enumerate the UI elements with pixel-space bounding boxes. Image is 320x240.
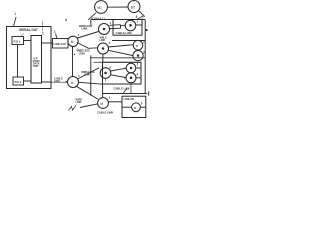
wire M7 down — [105, 78, 107, 81]
pin M8 — [136, 67, 141, 69]
svg-text:LINK: LINK — [82, 27, 88, 31]
wire N2 to M5 — [108, 45, 133, 47]
svg-text:SERIAL DAT: SERIAL DAT — [19, 28, 38, 32]
wire M7 to M9 — [111, 75, 127, 78]
leader 7 — [42, 21, 44, 32]
pin M5 — [143, 42, 145, 43]
node M6 dot — [137, 54, 140, 57]
enclosure left edge — [90, 20, 92, 26]
wire U2 to line cap — [42, 42, 53, 44]
motor M11 — [132, 103, 141, 112]
motor M6 — [133, 51, 143, 61]
pin tick M11 — [141, 103, 143, 104]
node C1 — [125, 20, 136, 31]
node N2 — [98, 43, 109, 54]
wire vertical right of M4 — [90, 55, 92, 95]
enclosure bottom edge — [103, 93, 146, 95]
arrowhead 5 — [143, 15, 145, 17]
svg-text:3: 3 — [54, 30, 56, 34]
svg-text:LINK: LINK — [54, 79, 60, 83]
leader 3 — [56, 34, 58, 39]
motor M2 — [128, 1, 140, 13]
motor M5 — [133, 40, 143, 50]
wire into M11 — [122, 106, 132, 108]
box B1 cable link — [113, 20, 142, 36]
node dot — [74, 54, 75, 55]
motor M1 — [95, 1, 108, 14]
node N1 dot — [103, 28, 106, 31]
svg-text:P.S 1: P.S 1 — [14, 40, 21, 44]
svg-text:M2: M2 — [131, 5, 136, 9]
wire PS1 to U2 — [24, 40, 32, 42]
motor M9 — [126, 73, 136, 83]
svg-text:M: M — [71, 40, 74, 44]
line cap box U3 — [53, 39, 69, 49]
svg-text:M1: M1 — [98, 6, 103, 10]
box B2 top edge — [112, 40, 145, 42]
svg-text:P.S 2: P.S 2 — [15, 80, 22, 84]
node C1 dot — [129, 24, 132, 27]
wire M1 to M2 — [107, 6, 128, 8]
svg-text:UNIT: UNIT — [33, 64, 39, 68]
leader 5 — [138, 16, 144, 19]
squiggle label 20 — [69, 106, 77, 111]
coupler M7 dot — [104, 72, 107, 75]
tick scribble — [142, 16, 146, 19]
wire vertical M3 to M4 — [72, 47, 74, 77]
svg-text:M: M — [100, 102, 103, 106]
wire M7 to M8 — [111, 68, 127, 71]
wire C1 right — [136, 24, 142, 26]
label WIRELESS LINK mid — [77, 49, 91, 56]
label WIRELESS LINK top — [79, 24, 93, 31]
arrowhead out — [146, 93, 148, 95]
svg-text:CABLE LINK: CABLE LINK — [114, 87, 130, 91]
leader 5 arrow — [139, 11, 145, 17]
svg-text:LINK: LINK — [79, 51, 85, 55]
wire to M4 — [51, 81, 68, 83]
node N2 dot — [102, 47, 105, 50]
wire into C1 — [121, 24, 126, 26]
svg-text:LINE DR: LINE DR — [124, 97, 135, 101]
wire U2 out bottom — [42, 81, 52, 83]
motor M8 — [126, 63, 136, 73]
arrow cable link to M4 — [66, 81, 68, 83]
node M8 dot — [130, 67, 133, 70]
converter block U2 — [31, 36, 42, 84]
label CABLE LINK left — [54, 77, 63, 84]
svg-text:CABLE LINK: CABLE LINK — [97, 111, 113, 115]
pin stub — [148, 91, 150, 95]
box B2 bottom edge — [91, 57, 145, 59]
box B4 line driver — [122, 96, 146, 117]
svg-text:M: M — [71, 81, 74, 85]
power supply PS2 — [13, 77, 24, 85]
wireless link line M3 to N2 — [77, 43, 98, 49]
arrowhead M7-M9 — [124, 77, 126, 79]
box B3 — [94, 61, 142, 63]
wire B3 to M10 — [102, 84, 104, 98]
coupler M7 — [100, 68, 111, 79]
wire PS2 to U2 — [24, 80, 32, 82]
svg-text:CABLE LINK: CABLE LINK — [116, 31, 132, 35]
leader from M1 — [88, 13, 96, 20]
node M9 dot — [130, 77, 133, 80]
wire PS1-PS2 — [17, 45, 19, 78]
svg-text:4: 4 — [65, 18, 67, 22]
wire N2 down — [102, 54, 104, 62]
label U2 text — [33, 57, 41, 69]
wire N2 to M6 — [108, 50, 133, 55]
arrow out — [145, 93, 147, 95]
wire M4 right — [79, 82, 103, 84]
pin tick M9 — [136, 74, 138, 75]
wireless link line M3 to N1 — [78, 32, 99, 39]
svg-text:LINK: LINK — [100, 39, 106, 42]
leader 1 — [14, 17, 17, 27]
enclosure right edge — [144, 20, 146, 94]
arrowhead M7-M8 — [124, 68, 126, 70]
enclosure right top edge — [91, 19, 145, 21]
node N1 — [99, 24, 110, 35]
tick below B3 — [123, 89, 127, 94]
cable pair N1 to box B1 — [110, 25, 121, 29]
wire M4 to M10 — [76, 86, 97, 99]
wire below M9 — [130, 84, 132, 93]
svg-text:4: 4 — [136, 15, 138, 19]
power supply PS1 — [12, 37, 24, 45]
motor M10 — [98, 98, 109, 109]
wire M10 right — [108, 101, 122, 103]
pin M6 — [143, 52, 145, 53]
svg-text:LINK: LINK — [76, 100, 82, 104]
arrowhead down — [102, 86, 104, 88]
wire M11 out — [140, 106, 145, 108]
rotary coupler M3 — [68, 36, 78, 46]
node dot right — [146, 29, 148, 31]
pin M9 — [136, 77, 141, 79]
pin tick M8 — [137, 64, 139, 65]
wireless line M4 up right — [78, 68, 99, 79]
wire into M10 low — [80, 104, 98, 108]
svg-text:LINE CAP: LINE CAP — [54, 42, 67, 46]
box U1 serial data unit — [7, 27, 52, 89]
svg-text:LINK: LINK — [84, 73, 90, 77]
leader PS1 — [20, 34, 24, 37]
label WIRELESS LINK M4 — [81, 70, 95, 77]
coupler M4 — [68, 77, 79, 88]
label WIRE LINK bottom — [76, 98, 83, 105]
label between N1 N2 — [100, 37, 108, 43]
leader wireless label — [77, 48, 82, 53]
